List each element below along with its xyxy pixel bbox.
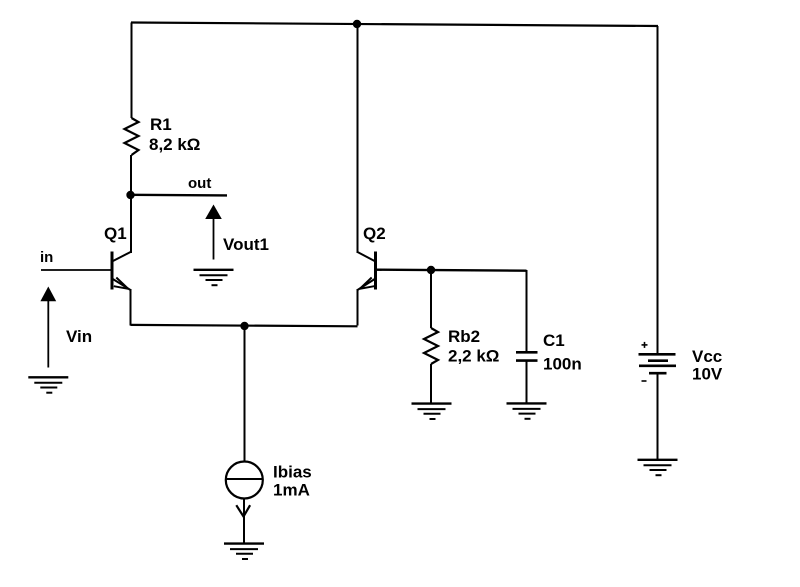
wire top rail	[131, 23, 658, 27]
wire bottom rail	[131, 325, 358, 326]
wire tail to Ibias	[244, 326, 246, 462]
transistor Q2	[358, 252, 376, 291]
svg-text:in: in	[40, 249, 53, 266]
ground for Vout1	[194, 270, 234, 285]
svg-text:R1: R1	[150, 115, 172, 134]
arrow Ibias direction	[236, 505, 250, 516]
svg-text:1mA: 1mA	[273, 481, 310, 500]
svg-text:Q2: Q2	[363, 224, 386, 243]
svg-text:100n: 100n	[543, 355, 582, 374]
svg-text:2,2 kΩ: 2,2 kΩ	[448, 347, 499, 366]
node top junction	[353, 20, 361, 28]
wire Q2 emitter vertical	[357, 289, 359, 326]
ground for C1	[507, 403, 547, 418]
wire C1 to ground	[526, 361, 528, 404]
transistor Q1	[112, 252, 131, 291]
ground for Rb2	[412, 404, 452, 419]
source Vin arrow	[40, 287, 56, 368]
wire Ibias to ground	[243, 499, 245, 544]
resistor Rb2	[424, 328, 438, 364]
wire down to Rb2	[430, 270, 432, 328]
wire left vertical to R1	[131, 23, 133, 119]
wire out stub	[131, 194, 228, 197]
resistor R1	[125, 118, 139, 155]
battery plus sign	[642, 342, 648, 348]
svg-text:Vcc: Vcc	[692, 347, 722, 366]
svg-text:8,2 kΩ: 8,2 kΩ	[149, 135, 200, 154]
wire Q1 emitter vertical	[130, 289, 132, 326]
wire Rb2 to ground	[430, 364, 432, 404]
wire in stub	[41, 269, 112, 271]
node tail junction	[240, 322, 248, 330]
wire Q2 collector vertical	[357, 24, 359, 253]
svg-text:Ibias: Ibias	[273, 463, 312, 482]
capacitor C1	[516, 352, 538, 360]
svg-text:Vout1: Vout1	[223, 235, 269, 254]
ground for Vcc	[638, 460, 678, 475]
ground for Ibias	[224, 544, 264, 559]
battery Vcc	[639, 354, 677, 373]
svg-text:Q1: Q1	[104, 224, 127, 243]
svg-text:Vin: Vin	[66, 327, 92, 346]
ground for Vin	[28, 377, 68, 392]
node out junction	[126, 191, 134, 199]
node base junction	[427, 266, 435, 274]
svg-text:Rb2: Rb2	[448, 327, 480, 346]
source Vout1 arrow	[205, 205, 222, 260]
svg-text:10V: 10V	[692, 365, 723, 384]
wire Vcc to ground	[657, 373, 659, 460]
svg-text:C1: C1	[543, 331, 565, 350]
wire down to C1	[526, 270, 528, 352]
wire Q2 base horizontal	[376, 270, 527, 271]
svg-text:out: out	[188, 175, 211, 192]
battery minus sign	[642, 380, 647, 382]
current source Ibias	[226, 462, 263, 499]
wire Vcc vertical	[657, 26, 659, 354]
wire R1 bottom to Q1 collector	[130, 155, 132, 253]
